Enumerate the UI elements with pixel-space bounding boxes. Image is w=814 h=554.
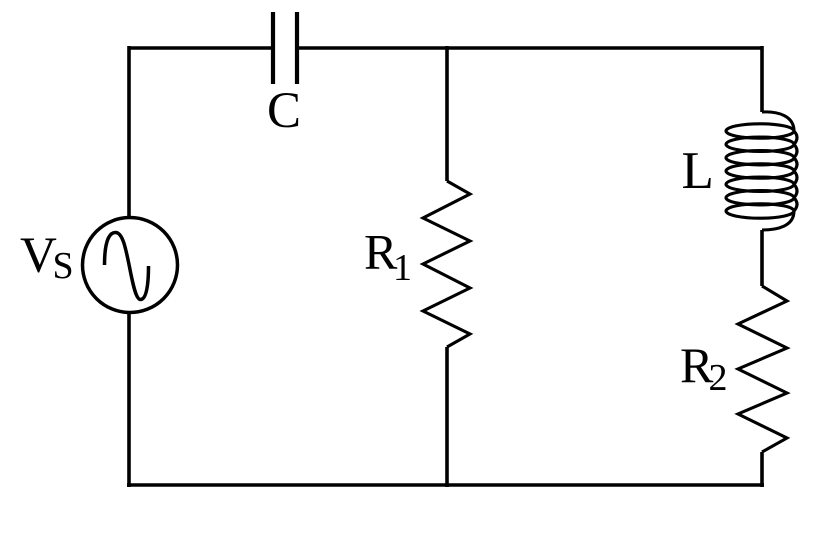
wire right rail lower (760, 452, 764, 487)
wire middle branch upper (445, 46, 449, 181)
svg-text:L: L (682, 142, 714, 200)
resistor R2 (738, 286, 787, 452)
svg-text:S: S (53, 245, 74, 287)
wire top-left segment (129, 46, 271, 50)
wire middle branch lower (445, 347, 449, 487)
wire right rail upper (760, 46, 764, 112)
svg-text:C: C (267, 83, 301, 139)
wire top-right segment (299, 46, 762, 50)
wire right rail middle (760, 230, 764, 286)
capacitor C (273, 12, 297, 84)
wire bottom rail (127, 483, 764, 487)
svg-text:V: V (20, 228, 57, 284)
wire left rail upper (127, 46, 131, 218)
sine inside source (105, 233, 149, 300)
resistor R1 (423, 181, 470, 347)
source V_S (83, 218, 178, 313)
inductor L (726, 112, 797, 230)
wire left rail lower (127, 312, 131, 487)
svg-text:1: 1 (393, 247, 412, 289)
svg-text:2: 2 (709, 357, 728, 399)
